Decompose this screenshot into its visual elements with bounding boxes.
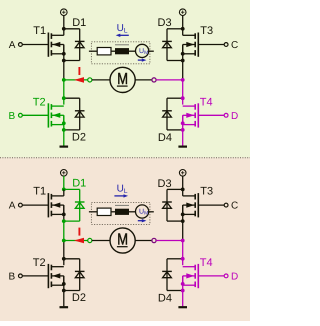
svg-text:D3: D3 [158, 17, 172, 29]
supply terminal + (right (b)) [179, 170, 186, 177]
wire T2 rail to D2 (left (b)) [64, 258, 80, 260]
arrow U_L (points left) [116, 34, 129, 37]
junction dot rail2 (b) [62, 257, 66, 261]
wire motor to right terminal (b) [135, 240, 152, 242]
wire bulk/source T2 (b) [63, 276, 65, 291]
diode D2 (b) [75, 259, 85, 291]
motor M [110, 67, 135, 92]
wire stub right out of box [149, 50, 154, 52]
wire drain seg T3 (b) [182, 189, 184, 196]
wire bulk/source T1 [63, 45, 65, 61]
wire below node to T2 rail (left) [63, 80, 65, 98]
wire bottom rail D3 (b) [167, 220, 183, 222]
junction dot drail3 (b) [181, 219, 185, 223]
dashed load box (b) [91, 202, 149, 224]
wire to ground (right (b)) [182, 291, 184, 307]
inductor L (filled) (b) [115, 205, 129, 215]
wire bulk/source T3 (b) [182, 205, 184, 221]
wire to ground (right) [182, 130, 184, 146]
wire above node (left) [63, 61, 65, 80]
node left [62, 78, 66, 82]
wire below node to T4 rail [182, 80, 184, 98]
svg-text:T2: T2 [33, 96, 46, 108]
node left (b) [62, 239, 66, 243]
junction dot drail2 [62, 128, 66, 132]
arrow U_M (points right) (b) [138, 219, 147, 222]
svg-text:UM: UM [139, 209, 148, 217]
diode D4 [162, 98, 172, 130]
wire L to U_M [129, 50, 136, 52]
node dot rail (right) [181, 27, 185, 31]
svg-text:D3: D3 [158, 178, 172, 190]
wire drain seg T2 (b) [63, 259, 65, 265]
junction dot source T1 [62, 52, 66, 56]
wire above node (left (b)) [63, 221, 65, 240]
wire bottom rail D1 (b) [64, 220, 80, 222]
terminal D [224, 113, 228, 117]
svg-text:D4: D4 [158, 293, 172, 305]
svg-text:D1: D1 [72, 178, 86, 190]
transistor T1 [48, 193, 63, 217]
wire top rail to D3 [167, 28, 183, 30]
svg-text:D2: D2 [72, 131, 86, 143]
arrow U_L (points right) (b) [114, 194, 128, 197]
node right (b) [181, 239, 185, 243]
motor M (b) [110, 228, 135, 253]
wire T4 rail to D4 (b) [167, 258, 183, 260]
wire bottom rail D3 [167, 60, 183, 62]
svg-text:A: A [9, 40, 16, 51]
wire supply drop (left) [63, 15, 65, 28]
background phase 1 (green) [0, 0, 250, 157]
junction dot rail4 (b) [181, 257, 185, 261]
EMF source U_M (b) [136, 205, 149, 218]
wire L to U_M (b) [129, 211, 136, 213]
svg-text:C: C [231, 200, 238, 211]
svg-text:A: A [9, 200, 16, 211]
motor right terminal circle (b) [152, 238, 156, 242]
inductor L (filled) [115, 45, 129, 55]
dashed load box [91, 42, 149, 64]
diode D2 [75, 98, 85, 130]
wire stub left into box [89, 50, 97, 52]
wire right terminal to node [156, 79, 183, 81]
wire drain seg T4 (b) [182, 259, 184, 265]
svg-text:D: D [231, 111, 238, 122]
wire T4 rail to D4 [167, 97, 183, 99]
wire bottom rail D4 [167, 129, 183, 131]
diode D1 (b) [75, 189, 85, 221]
transistor T3 [183, 33, 199, 57]
junction dot drail2 (b) [62, 289, 66, 293]
svg-text:T4: T4 [200, 96, 213, 108]
svg-text:T2: T2 [33, 257, 46, 269]
terminal C (b) [224, 203, 228, 207]
terminal C [224, 43, 228, 47]
ground (left (b)) [60, 306, 69, 308]
wire node to motor-left terminal [64, 79, 88, 81]
wire above node (right (b)) [182, 221, 184, 240]
wire below node to T2 rail (left (b)) [63, 241, 65, 259]
diode D1 [75, 29, 85, 61]
wire bulk/source T3 [182, 45, 184, 61]
node dot rail1 (left) [62, 27, 66, 31]
ground (right) [178, 146, 187, 148]
wire drain seg T1 [63, 29, 65, 36]
junction dot source T3 (b) [181, 213, 185, 217]
motor right terminal circle [152, 78, 156, 82]
diode D3 (b) [162, 189, 172, 221]
supply terminal + (right) [179, 9, 186, 16]
svg-text:T3: T3 [200, 25, 213, 37]
junction dot source T1 (b) [62, 213, 66, 217]
wire bottom rail D1 [64, 60, 80, 62]
wire to ground (left) [63, 130, 65, 146]
motor left terminal circle [88, 78, 92, 82]
wire drain seg T3 [182, 29, 184, 36]
supply terminal + (left (b)) [61, 170, 68, 177]
svg-text:C: C [231, 40, 238, 51]
wire T2 rail to D2 (left) [64, 97, 80, 99]
wire stub right out of box (b) [149, 211, 154, 213]
wire to ground (left (b)) [63, 291, 65, 307]
junction dot rail4 [181, 96, 185, 100]
diode D4 (b) [162, 259, 172, 291]
wire R to L (b) [111, 211, 115, 213]
ground (right (b)) [178, 306, 187, 308]
resistor R (armature) [97, 48, 111, 55]
junction dot drail1 (b) [62, 219, 66, 223]
svg-text:T4: T4 [200, 257, 213, 269]
wire bulk/source T2 [63, 115, 65, 130]
svg-text:T1: T1 [33, 186, 46, 198]
junction dot source T2 [62, 121, 66, 125]
wire below node to T4 rail (b) [182, 241, 184, 259]
wire bulk/source T1 (b) [63, 205, 65, 221]
wire drain seg T4 [182, 98, 184, 104]
wire bottom rail D4 (b) [167, 290, 183, 292]
motor left terminal circle (b) [88, 238, 92, 242]
current arrow I (b) [74, 228, 84, 244]
node right [181, 78, 185, 82]
diode D3 [162, 29, 172, 61]
terminal A (b) [19, 203, 23, 207]
wire node to motor-left terminal (b) [64, 240, 88, 242]
transistor T2 [48, 264, 63, 288]
junction dot drail1 [62, 59, 66, 63]
svg-text:D: D [231, 272, 238, 283]
wire supply drop (left (b)) [63, 176, 65, 189]
node dot rail1 (left (b)) [62, 188, 66, 192]
wire drain seg T1 (b) [63, 189, 65, 196]
wire bulk/source T4 [182, 115, 184, 130]
ground (left) [60, 146, 69, 148]
junction dot drail4 [181, 128, 185, 132]
junction dot source T4 [181, 121, 185, 125]
wire bottom rail D2 [64, 129, 80, 131]
wire motor to right terminal [135, 79, 152, 81]
svg-text:M: M [117, 71, 128, 88]
terminal D (b) [224, 274, 228, 278]
wire top rail to D3 (b) [167, 188, 183, 190]
transistor T2 [48, 103, 63, 127]
current arrow I [74, 67, 84, 83]
svg-text:T1: T1 [33, 25, 46, 37]
wire above node (right) [182, 61, 184, 80]
junction dot drail3 [181, 59, 185, 63]
node dot rail (right (b)) [181, 188, 185, 192]
svg-text:D1: D1 [72, 17, 86, 29]
wire bulk/source T4 (b) [182, 276, 184, 291]
supply terminal + (left) [61, 9, 68, 16]
junction dot drail4 (b) [181, 289, 185, 293]
svg-text:UM: UM [139, 48, 148, 56]
transistor T4 [183, 103, 199, 127]
terminal B (b) [19, 274, 23, 278]
terminal B [19, 113, 23, 117]
arrow U_M (points right) [138, 58, 147, 61]
wire supply drop (right (b)) [182, 176, 184, 189]
svg-text:D4: D4 [158, 132, 172, 144]
wire R to L [111, 50, 115, 52]
transistor T4 [183, 264, 199, 288]
transistor T3 [183, 193, 199, 217]
wire bottom rail D2 (b) [64, 290, 80, 292]
junction dot source T4 (b) [181, 282, 185, 286]
terminal A [19, 43, 23, 47]
wire top rail to D (left (b)) [64, 188, 80, 190]
svg-text:D2: D2 [72, 292, 86, 304]
svg-text:B: B [9, 111, 16, 122]
svg-text:M: M [117, 232, 128, 249]
background phase 2 (pink) [0, 157, 250, 321]
wire right terminal to node (b) [156, 240, 183, 242]
separator dotted line [0, 157, 250, 159]
wire stub left into box (b) [89, 211, 97, 213]
resistor R (armature) (b) [97, 208, 111, 215]
EMF source U_M [136, 44, 149, 57]
wire drain seg T2 [63, 98, 65, 104]
wire terminal to motor (b) [92, 240, 110, 242]
svg-text:T3: T3 [200, 186, 213, 198]
svg-text:B: B [9, 272, 16, 283]
transistor T1 [48, 33, 63, 57]
wire top rail to D (left) [64, 28, 80, 30]
wire supply drop (right) [182, 15, 184, 28]
junction dot source T2 (b) [62, 282, 66, 286]
junction dot source T3 [181, 52, 185, 56]
wire terminal to motor [92, 79, 110, 81]
junction dot rail2 [62, 96, 66, 100]
